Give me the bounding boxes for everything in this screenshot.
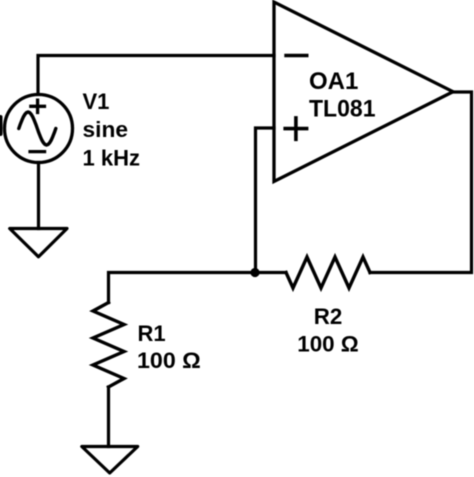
V1 sine wave xyxy=(19,112,56,145)
svg-text:100 Ω: 100 Ω xyxy=(297,332,359,357)
ground (V1) xyxy=(10,229,67,257)
op-amp plus input symbol xyxy=(283,116,308,141)
node junction dot xyxy=(250,268,259,277)
resistor R2 xyxy=(286,257,370,288)
wire node to R2 xyxy=(256,271,287,274)
svg-text:100 Ω: 100 Ω xyxy=(137,348,201,373)
svg-text:sine: sine xyxy=(83,117,129,142)
voltage source V1 xyxy=(5,95,73,163)
op-amp U1 triangle xyxy=(274,2,453,182)
wire node to R1 xyxy=(109,273,256,303)
op-amp minus input symbol xyxy=(284,54,308,57)
wire V1 bottom to ground xyxy=(37,163,40,229)
ground (R1) xyxy=(82,447,138,474)
svg-text:R2: R2 xyxy=(314,304,343,329)
wire op-amp output xyxy=(370,92,472,273)
resistor R1 xyxy=(93,303,124,388)
svg-text:R1: R1 xyxy=(138,321,166,346)
wire plus input to feedback node xyxy=(256,128,275,273)
svg-text:OA1: OA1 xyxy=(309,68,358,95)
svg-text:1 kHz: 1 kHz xyxy=(83,146,140,171)
wire top from V1 to op-amp minus input xyxy=(38,56,274,94)
wire R1 to ground xyxy=(107,387,110,447)
svg-text:TL081: TL081 xyxy=(309,96,376,123)
edge artifact xyxy=(0,115,3,136)
svg-text:V1: V1 xyxy=(83,89,110,114)
V1 minus sign xyxy=(28,150,46,153)
V1 plus sign xyxy=(29,99,46,115)
